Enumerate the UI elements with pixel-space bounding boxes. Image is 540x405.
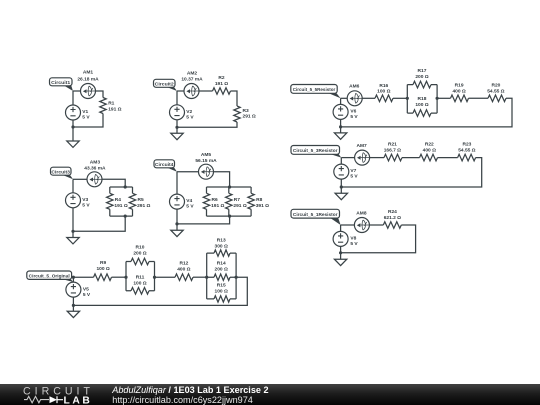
wire (176, 172, 178, 194)
node junction (72, 276, 75, 279)
ammeter AM2 (181, 71, 203, 99)
voltage source V4 (170, 194, 195, 210)
wire (370, 157, 384, 159)
svg-text:5 V: 5 V (350, 241, 358, 247)
resistor R18 (407, 96, 437, 116)
svg-text:191 Ω: 191 Ω (108, 106, 121, 112)
wire right bracket (436, 85, 438, 114)
svg-text:191 Ω: 191 Ω (215, 81, 228, 87)
svg-text:V2: V2 (186, 109, 192, 115)
svg-text:R6: R6 (212, 197, 218, 203)
resistor R19 (451, 82, 469, 101)
svg-text:400 Ω: 400 Ω (423, 148, 436, 154)
svg-text:http://circuitlab.com/c6ys22jj: http://circuitlab.com/c6ys22jjwn974 (112, 395, 253, 405)
svg-text:R15: R15 (217, 283, 226, 289)
node junction (153, 276, 156, 279)
wire top rail (207, 186, 252, 188)
svg-text:R14: R14 (217, 261, 226, 267)
node junction (175, 126, 178, 129)
wire (340, 119, 342, 127)
voltage source V2 (170, 105, 195, 121)
svg-text:AM8: AM8 (356, 210, 367, 216)
svg-text:R4: R4 (115, 197, 121, 203)
node junction (124, 276, 127, 279)
ground (334, 259, 346, 265)
svg-text:100 Ω: 100 Ω (133, 281, 146, 287)
svg-text:R9: R9 (100, 260, 106, 266)
ground (67, 311, 79, 317)
svg-text:R17: R17 (418, 68, 427, 74)
node junction (205, 276, 208, 279)
wire (73, 90, 81, 92)
voltage source V8 (333, 231, 358, 247)
wire (72, 305, 74, 311)
wire (176, 209, 178, 224)
svg-text:5 V: 5 V (82, 114, 90, 120)
ground (67, 141, 79, 147)
wire (231, 91, 238, 106)
resistor R12 (175, 261, 193, 281)
svg-text:R21: R21 (388, 142, 397, 148)
svg-text:291 Ω: 291 Ω (233, 203, 246, 209)
svg-text:191 Ω: 191 Ω (114, 203, 127, 209)
wire (177, 90, 184, 92)
resistor R1 (100, 98, 122, 114)
ground (67, 238, 79, 244)
svg-text:R22: R22 (425, 142, 434, 148)
wire return (341, 98, 512, 127)
node junction (339, 125, 342, 128)
wire (469, 97, 489, 99)
svg-text:10.37 mA: 10.37 mA (181, 77, 203, 83)
net label Circuit1 (50, 78, 74, 91)
svg-text:R19: R19 (455, 82, 464, 88)
ground (334, 133, 346, 139)
svg-text:56.15 mA: 56.15 mA (195, 158, 217, 164)
svg-text:R11: R11 (136, 275, 145, 281)
node junction (71, 125, 74, 128)
wire return (341, 158, 481, 187)
svg-text:Circuit_5_Original: Circuit_5_Original (29, 274, 70, 279)
ground (335, 193, 347, 199)
wire (340, 225, 342, 231)
svg-text:100 Ω: 100 Ω (96, 266, 109, 272)
wire left bracket (125, 262, 127, 291)
svg-text:54.55 Ω: 54.55 Ω (458, 148, 475, 154)
wire (214, 172, 230, 187)
svg-text:R12: R12 (179, 261, 188, 267)
wire right bracket (235, 253, 237, 299)
svg-text:Circuit4: Circuit4 (155, 162, 174, 167)
resistor R21 (384, 142, 402, 161)
voltage source V3 (66, 193, 91, 209)
ammeter AM8 (354, 210, 369, 232)
svg-text:R7: R7 (234, 197, 240, 203)
wire bottom rail (207, 215, 252, 217)
svg-text:Circuit1: Circuit1 (51, 80, 70, 85)
node junction (124, 215, 127, 218)
svg-text:V1: V1 (82, 109, 88, 115)
wire return (341, 225, 416, 253)
svg-text:V5: V5 (83, 286, 89, 292)
svg-text:300 Ω: 300 Ω (215, 244, 228, 250)
resistor R9 (94, 260, 112, 280)
wire (362, 97, 375, 99)
wire (402, 157, 420, 159)
wire (340, 246, 342, 252)
svg-text:191 Ω: 191 Ω (211, 203, 224, 209)
node junction (228, 215, 231, 218)
resistor R5 (129, 187, 150, 216)
svg-text:621.2 Ω: 621.2 Ω (384, 215, 401, 221)
svg-text:391 Ω: 391 Ω (256, 203, 269, 209)
wire (73, 216, 125, 231)
resistor R3 (234, 106, 256, 122)
svg-text:R5: R5 (138, 197, 144, 203)
ground (171, 133, 183, 139)
wire (193, 276, 207, 278)
node junction (436, 97, 439, 100)
svg-text:Circuit_5_5Resistor: Circuit_5_5Resistor (293, 87, 336, 92)
svg-text:R10: R10 (136, 245, 145, 251)
ground (171, 230, 183, 236)
node junction (406, 97, 409, 100)
svg-text:5 V: 5 V (350, 114, 358, 120)
net label Circuit_5_1Resistor (291, 209, 341, 225)
resistor R11 (126, 275, 155, 294)
wire (176, 91, 178, 105)
svg-text:Circuit_5_3Resistor: Circuit_5_3Resistor (293, 148, 338, 153)
svg-text:AM6: AM6 (349, 84, 360, 90)
svg-text:V4: V4 (186, 198, 192, 204)
net label Circuit_5_Original (27, 271, 74, 282)
svg-text:Circuit3: Circuit3 (51, 169, 70, 174)
svg-text:AM3: AM3 (90, 160, 101, 166)
wire (340, 98, 342, 104)
svg-text:291 Ω: 291 Ω (243, 114, 256, 120)
svg-text:200 Ω: 200 Ω (215, 267, 228, 273)
svg-text:Circuit_5_1Resistor: Circuit_5_1Resistor (293, 212, 338, 217)
node junction (71, 230, 74, 233)
svg-text:Circuit2: Circuit2 (155, 82, 174, 87)
wire (72, 277, 74, 282)
node junction (175, 222, 178, 225)
node junction (72, 304, 75, 307)
wire (72, 120, 74, 127)
svg-text:AM7: AM7 (356, 143, 367, 149)
voltage source V5 (66, 282, 91, 298)
wire left bracket (206, 253, 208, 299)
node junction (235, 276, 238, 279)
resistor R15 (207, 283, 236, 302)
svg-text:V7: V7 (350, 168, 356, 174)
svg-text:54.55 Ω: 54.55 Ω (487, 88, 504, 94)
wire (369, 224, 383, 226)
svg-text:AM2: AM2 (187, 71, 198, 77)
wire left bracket (406, 85, 408, 114)
wire (112, 276, 127, 278)
svg-text:AM5: AM5 (201, 152, 212, 158)
wire (96, 91, 104, 98)
voltage source V6 (333, 104, 358, 120)
wire (73, 276, 93, 278)
net label Circuit2 (154, 79, 178, 91)
wire top rail (110, 186, 133, 188)
svg-text:200 Ω: 200 Ω (133, 251, 146, 257)
wire (438, 157, 458, 159)
resistor R22 (420, 142, 438, 161)
resistor R17 (407, 68, 437, 88)
net label Circuit4 (154, 160, 177, 172)
svg-text:R13: R13 (217, 238, 226, 244)
net label Circuit_5_5Resistor (291, 85, 341, 99)
svg-text:200 Ω: 200 Ω (415, 74, 428, 80)
wire (72, 231, 74, 237)
wire (340, 253, 342, 259)
resistor R4 (107, 187, 128, 216)
wire (177, 122, 237, 127)
wire (102, 179, 125, 187)
resistor R2 (213, 75, 231, 94)
wire return (73, 277, 247, 305)
svg-text:5 V: 5 V (350, 174, 358, 180)
wire (72, 127, 74, 141)
wire (340, 158, 342, 165)
svg-text:R3: R3 (243, 108, 249, 114)
wire (72, 297, 74, 305)
svg-text:R16: R16 (379, 83, 388, 89)
wire (73, 114, 103, 128)
node junction (124, 185, 127, 188)
node junction (340, 185, 343, 188)
svg-text:R8: R8 (256, 197, 262, 203)
svg-text:43.36 mA: 43.36 mA (84, 166, 106, 172)
wire (73, 178, 87, 180)
svg-text:5 V: 5 V (186, 114, 194, 120)
resistor R20 (487, 82, 506, 101)
net label Circuit_5_3Resistor (291, 146, 341, 158)
wire (341, 224, 355, 226)
svg-text:AbdulZulfiqar / 1E03 Lab 1 Exe: AbdulZulfiqar / 1E03 Lab 1 Exercise 2 (111, 385, 268, 395)
svg-text:5 V: 5 V (83, 292, 91, 298)
svg-text:R18: R18 (418, 96, 427, 102)
ammeter AM7 (355, 143, 370, 165)
voltage source V7 (334, 164, 359, 180)
svg-text:V8: V8 (350, 235, 356, 241)
wire (155, 276, 176, 278)
svg-text:R24: R24 (388, 209, 397, 215)
wire (340, 179, 342, 187)
wire (176, 120, 178, 128)
resistor R16 (375, 83, 393, 102)
ammeter AM3 (84, 160, 106, 187)
wire (341, 157, 355, 159)
svg-text:100 Ω: 100 Ω (215, 289, 228, 295)
resistor R8 (248, 187, 269, 216)
svg-text:5 V: 5 V (186, 204, 194, 210)
svg-text:26.18 mA: 26.18 mA (77, 77, 99, 83)
resistor R23 (458, 142, 476, 161)
svg-text:V6: V6 (350, 108, 356, 114)
svg-text:R1: R1 (108, 101, 114, 107)
wire (177, 216, 230, 224)
CircuitLab logo wordmark (23, 386, 94, 405)
wire (199, 90, 213, 92)
svg-text:AM1: AM1 (83, 70, 94, 76)
wire right bracket (154, 262, 156, 291)
wire (341, 97, 348, 99)
resistor R24 (383, 209, 401, 228)
svg-text:R2: R2 (218, 75, 224, 81)
svg-text:R23: R23 (462, 142, 471, 148)
node junction (339, 251, 342, 254)
wire (177, 171, 199, 173)
ammeter AM5 (195, 152, 217, 179)
svg-text:V3: V3 (82, 197, 88, 203)
wire (393, 97, 407, 99)
net label Circuit3 (51, 167, 74, 179)
ammeter AM6 (347, 84, 362, 106)
resistor R14 (207, 261, 236, 281)
resistor R7 (226, 187, 247, 216)
wire (72, 208, 74, 232)
wire (340, 127, 342, 133)
wire (176, 224, 178, 230)
wire (72, 91, 74, 105)
resistor R10 (126, 245, 155, 265)
wire (176, 127, 178, 133)
svg-text:291 Ω: 291 Ω (137, 203, 150, 209)
svg-text:100 Ω: 100 Ω (415, 102, 428, 108)
ammeter AM1 (77, 70, 99, 99)
node junction (228, 185, 231, 188)
voltage source V1 (66, 105, 91, 120)
svg-text:100 Ω: 100 Ω (377, 89, 390, 95)
wire (437, 97, 450, 99)
svg-text:400 Ω: 400 Ω (177, 267, 190, 273)
wire (340, 187, 342, 193)
wire (72, 179, 74, 193)
svg-text:166.7 Ω: 166.7 Ω (384, 148, 401, 154)
svg-text:400 Ω: 400 Ω (452, 88, 465, 94)
svg-text:LAB: LAB (64, 395, 93, 405)
svg-text:5 V: 5 V (82, 202, 90, 208)
resistor R6 (203, 187, 224, 216)
resistor R13 (207, 238, 236, 257)
wire bottom rail (110, 215, 133, 217)
svg-text:R20: R20 (491, 82, 500, 88)
